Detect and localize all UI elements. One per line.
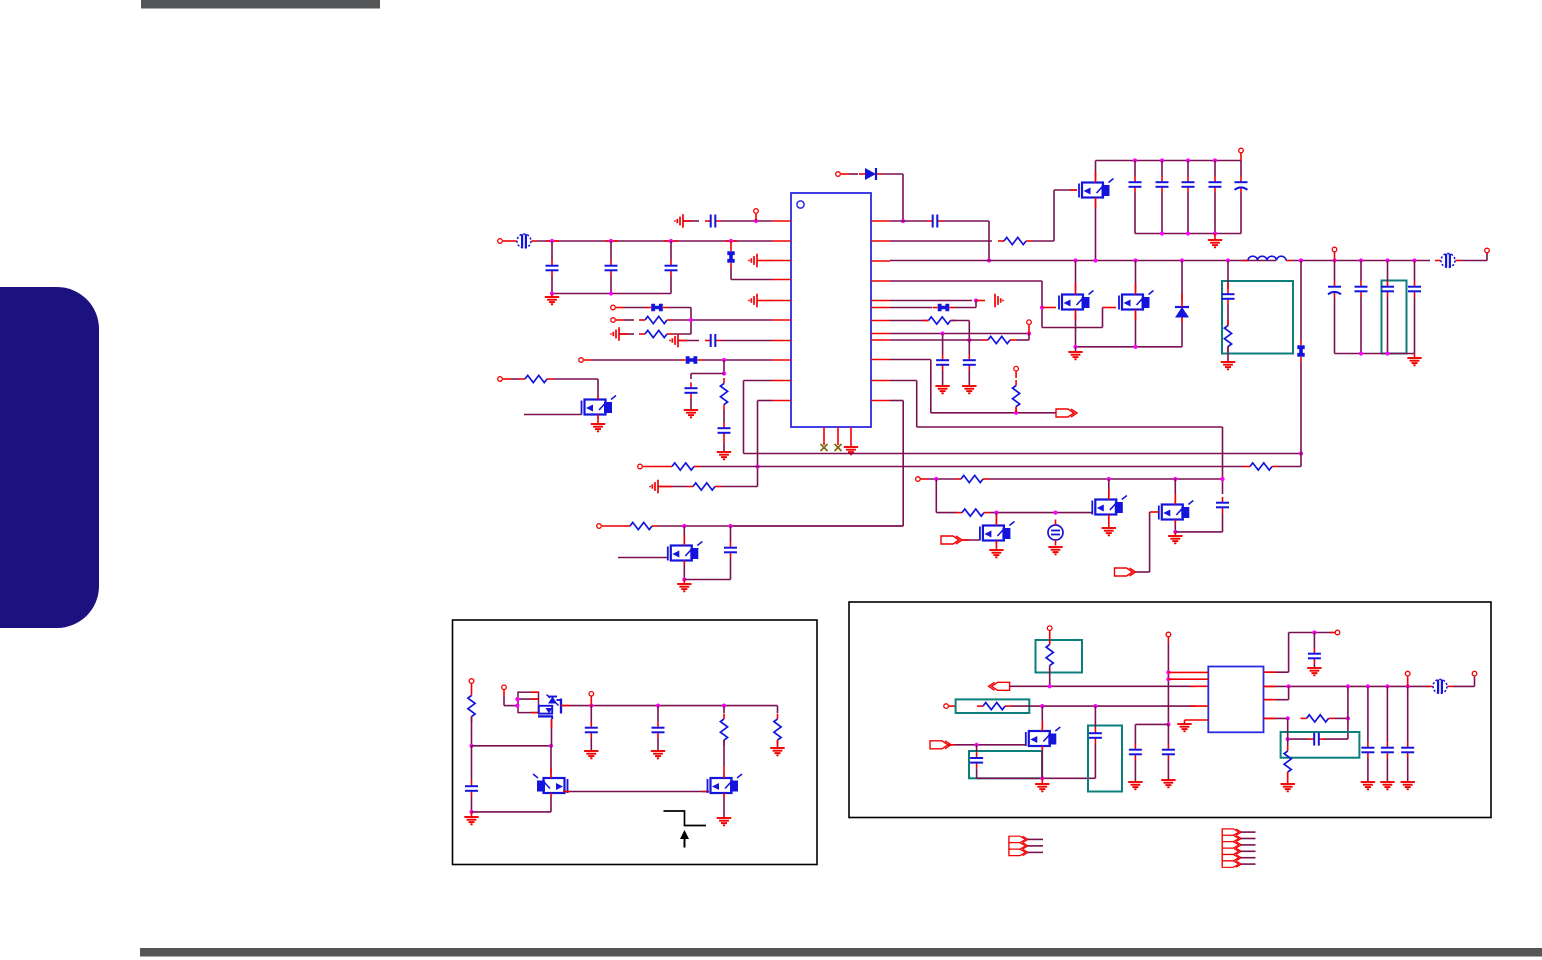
wire br cap left [1135,724,1168,744]
ground C26 [1128,782,1142,789]
wire R4 to Q1 [553,379,598,397]
wire br row2 [1011,704,1208,708]
resistor R16 [468,690,475,746]
ground snubber [1221,362,1235,369]
diode D1 [849,168,882,180]
wire cap to pin1 [721,219,772,223]
capacitor C30 [1308,633,1321,669]
resistor R18 [774,706,781,748]
signal ground pin3 [749,254,772,268]
wire fuse to pin [731,279,772,281]
U1 bottom pins [824,427,851,447]
wire agnd rowC [619,333,634,335]
wire pin r300 loop [890,298,985,302]
wire FB2 out [1461,253,1487,261]
capacitor C32 [1361,686,1374,782]
capacitor C22 [724,526,737,580]
wire Q9 drain [550,746,552,774]
resistor R17 [720,706,727,766]
wire gate Q4 [1042,308,1116,328]
wire row 526 [658,524,903,528]
wire C5 to pin7 [721,340,772,342]
transistor Q11 [1026,727,1061,750]
wire pin r307 [890,307,932,309]
wire node E down [691,360,726,379]
node rail junctions [550,239,733,243]
feedback box E [1281,732,1360,758]
capacitor C4 [705,215,721,228]
ground C34 [1401,782,1415,789]
wire Q5 drain [1108,479,1110,496]
snubber box [1222,281,1293,354]
wire C21 bottom [1222,513,1224,532]
terminal row E [579,358,592,363]
wire R6 corner [1278,454,1301,467]
wire to fuse E [592,359,681,361]
terminal riser 1334 [1332,247,1337,260]
wire pin r221 [890,220,927,222]
signal ground r300 [995,294,1003,308]
wire U2 pin b [1168,678,1208,680]
terminal row B [611,318,624,323]
wire rail 466 [700,466,1245,468]
capacitor C33 [1381,686,1394,782]
ground Q6 [989,545,1003,558]
wire Q2 drain [1095,161,1097,179]
capacitor C25 [652,706,665,751]
discharge box [453,620,818,865]
connector header J2 [1222,829,1255,867]
wire agnd to cap [683,220,699,222]
resistor R20 [977,703,1011,710]
capacitor C6 [685,383,698,399]
fuse F1 [727,241,734,280]
flag EN left [989,682,1209,690]
ground C24 [584,751,598,758]
resistor R1 [624,316,673,323]
wire row 479 [928,477,1225,481]
node bl2 [469,810,551,814]
terminal bl1 [469,679,474,690]
wire D1 to pin [882,174,905,223]
ferrite bead FB1 [511,234,537,248]
regulator U2 [1208,667,1263,733]
capacitor C34 [1401,686,1414,782]
ground out caps [1407,354,1421,366]
capacitor C8 [927,215,943,228]
capacitor C11 [1182,161,1195,234]
capacitor C3 [665,241,678,294]
ground cap bank [1208,234,1222,248]
wire br vertical [1166,643,1170,727]
wire R10 corner [951,321,971,343]
U1 right pins [871,221,890,401]
wire C6 gnd [690,399,692,411]
resistor R22 [1284,746,1291,785]
diode D2 [1175,261,1189,347]
fuse F5 [933,304,955,311]
wire FB3 out [1453,677,1475,687]
capacitor C19 [936,334,949,387]
wire bl rail [589,704,777,708]
connector header J1 [1009,836,1043,855]
wire U2 out top [1264,630,1334,672]
wire gate Q3 [1042,307,1056,309]
wire top cap rail [1096,158,1242,162]
wire D3 out [561,705,591,707]
flag gate Q6 [941,536,980,544]
wire pin r400 [731,401,904,527]
left navy tab [0,287,99,628]
ground source bus [1068,347,1082,360]
ground C20 [962,386,976,393]
transistor Q2 high-side [1079,179,1114,202]
terminal riser 1029 [1027,320,1032,334]
ground R3C7 [717,439,731,460]
terminal row 466 [638,464,666,469]
ground C19 [935,386,949,393]
wire after L1 [1292,258,1430,262]
ground C25 [651,751,665,758]
wire divider down [936,479,957,513]
ground C30 [1307,668,1321,675]
fuse F4 [1297,340,1304,454]
wire pin r241 [890,240,992,242]
ground C6 [684,410,698,417]
capacitor C9 [1129,161,1142,234]
flag ACOK [1056,409,1077,417]
capacitor box D [1088,726,1122,792]
resistor box A [1036,640,1083,673]
transistor Q9 [533,774,568,797]
wire R2 to node [673,333,691,335]
wire Q4 drain [1135,261,1137,291]
terminal riser pin1 [754,209,759,221]
wire pin r380 [890,381,1223,495]
fuse F2 [624,304,668,311]
resistor R10 [923,317,957,324]
capacitor C24 [585,706,598,751]
resistor R13 [955,475,989,482]
wire source to cap [684,579,730,581]
terminal diode in [836,172,849,177]
wire pin r340 [890,339,983,341]
wire Q2 source to rail [1095,202,1097,261]
header bar [141,0,380,9]
signal ground pin5 [749,294,772,308]
wire D3 bottom [551,719,553,746]
capacitor C26 [1129,744,1142,782]
transistor Q8 [668,542,703,565]
terminal row 479 [916,477,928,482]
ground R22 [1281,784,1295,791]
wire rail 453 [744,451,1304,455]
wire R7 corner [721,486,758,488]
signal ground row221 [675,214,683,228]
transistor Q6 [980,522,1015,545]
node L1 junction [1299,258,1303,262]
wire Q7 drain [1174,479,1176,501]
ground U1 power pad [844,447,858,454]
terminal br1 [1047,626,1052,640]
wire R1 to pin6 [673,318,772,322]
wire fuseE to pin8 [703,358,773,362]
wire agnd rowD [678,340,699,342]
resistor R21 [1301,715,1335,722]
wire C8 corner [943,221,991,263]
wire pin r320 [890,320,928,322]
capacitor C16 [1355,261,1368,354]
wire R21 node [1323,686,1350,739]
resistor R7 [687,483,721,490]
wire Q1 gate [524,414,582,416]
wire Q8 source [682,565,686,582]
wire pin9 loop [744,381,773,454]
wire source bus [1073,345,1182,349]
terminal row 379 [498,377,511,382]
wire SW rail [890,258,1276,262]
capacitor C10 [1156,161,1169,234]
ground C27 [1161,780,1175,787]
regulator box [849,602,1491,818]
resistor R4 [511,375,553,382]
wire Q3 drain [1075,261,1077,291]
capacitor C18 [1408,261,1421,354]
capacitor box C [969,751,1042,778]
ground Q11 [1035,778,1049,791]
wire fuseA to node [668,308,691,335]
U1 left pins [772,221,791,401]
terminal riser br [1405,671,1410,686]
resistor R12 [1013,380,1020,413]
ferrite bead FB2 [1435,254,1461,268]
resistor R2 [639,330,673,337]
capacitor C17 [1381,261,1394,354]
charger controller U1 [791,193,871,427]
wire Q4 source [1135,314,1137,347]
node bl [469,744,553,748]
capacitor C1 [546,241,559,294]
capacitor C28 [970,745,983,779]
footer bar [140,948,1542,957]
terminal VIN [498,239,511,244]
wire Q8 drain [683,526,685,542]
ground Q10 [717,818,731,825]
capacitor C20 [963,340,976,386]
wire Q11 drain [1041,706,1043,727]
capacitor C13 polarized [1235,161,1248,234]
capacitor C12 [1209,161,1222,234]
ground Q1 [591,419,605,432]
wire F5 up [955,301,977,308]
ground Q5 [1102,519,1116,536]
wire br bottom bus [977,776,1096,780]
terminal bl3 [589,692,594,706]
wire R11 corner [1016,334,1029,341]
terminal bl2 [502,685,518,706]
ground bl [464,812,478,824]
terminal br4 [1330,630,1340,635]
wire pin r359 loop [890,360,1056,415]
capacitor C23 [465,746,478,812]
capacitor C5 [705,334,721,347]
wire snubber in [1227,261,1229,289]
wire U2 fb pin [1264,686,1289,699]
ground input caps [545,294,559,305]
step waveform symbol [664,811,707,848]
resistor box B [956,699,1030,713]
capacitor C14 [1222,289,1235,326]
terminal br2 [1166,632,1171,643]
wire Q10 source [723,797,725,818]
inductor L1 [1242,256,1292,260]
ground CS1 [1048,547,1062,554]
flag gate Q11 [930,741,1026,749]
resistor R15 [624,522,658,529]
wire Q10 drain [723,766,725,775]
wire U2 fb2 pin [1264,716,1290,720]
ferrite bead FB3 [1427,679,1453,693]
wire input rail [537,240,772,242]
wire cap bank bottom [1135,231,1241,235]
resistor R6 [1244,463,1278,470]
wire pin r281 [890,281,1044,328]
wire U2 pin a [1168,671,1208,673]
capacitor C29 [1089,706,1102,778]
transistor Q5 [1092,496,1127,519]
resistor R19 [1046,639,1053,686]
resistor R11 [982,336,1016,343]
terminal VOUT [1485,248,1490,253]
ground R18 [770,748,784,755]
capacitor C31 [1286,733,1325,746]
terminal top right [1239,148,1244,160]
transistor Q7 [1159,501,1194,524]
ground U2 pin [1177,720,1208,731]
wire pin r333 [890,331,1031,335]
terminal br5 [1472,671,1477,676]
dual diode D3 [515,692,561,719]
flag gate Q7 [1115,512,1159,576]
capacitor C7 [718,410,731,439]
capacitor C15 polarized [1328,261,1341,354]
signal ground row D [670,334,678,348]
signal ground row 486 [650,480,687,494]
capacitor C2 [605,241,618,294]
wire gate link [563,791,709,793]
wire Q6 drain [995,513,997,522]
wire pin10 loop [755,401,772,487]
terminal R12 top [1014,366,1019,378]
ground C33 [1380,782,1394,789]
no-connect X pin [835,444,842,451]
fuse F3 [681,356,703,363]
resistor R3 [720,378,727,410]
wire fb divider [1287,718,1289,745]
wire row 512 [990,510,1093,514]
capacitor C21 [1216,477,1229,513]
transistor Q1 [582,396,617,419]
no-connect X pin [821,444,828,451]
sense box [1382,281,1407,354]
wire L1 node down [1300,261,1302,341]
wire U2 out rail [1264,684,1431,688]
wire out cap bottom [1335,351,1415,355]
terminal row A [611,305,624,310]
wire R8 to gate Q2 [1032,190,1077,241]
current source CS1 [1048,520,1063,546]
resistor R8 [998,237,1032,244]
signal ground row C [611,327,619,341]
wire cap bottom bus [550,291,671,295]
resistor R14 [956,509,990,516]
transistor Q10 [708,774,743,797]
resistor R5 [666,463,700,470]
wire Q7 source [1173,524,1222,535]
ground Q7 [1168,532,1182,543]
wire Q11 source [1041,750,1043,778]
transistor Q4 [1119,291,1154,314]
wire Q8 gate [618,557,667,559]
terminal br3 [944,704,956,709]
resistor R9 [1224,320,1231,362]
wire Q3 source [1075,314,1077,347]
wire Q9 source [550,797,552,812]
ground C32 [1361,782,1375,789]
terminal row 526 [597,524,624,529]
ground Q8 [677,580,691,592]
transistor Q3 [1059,291,1094,314]
capacitor C27 [1162,724,1175,780]
